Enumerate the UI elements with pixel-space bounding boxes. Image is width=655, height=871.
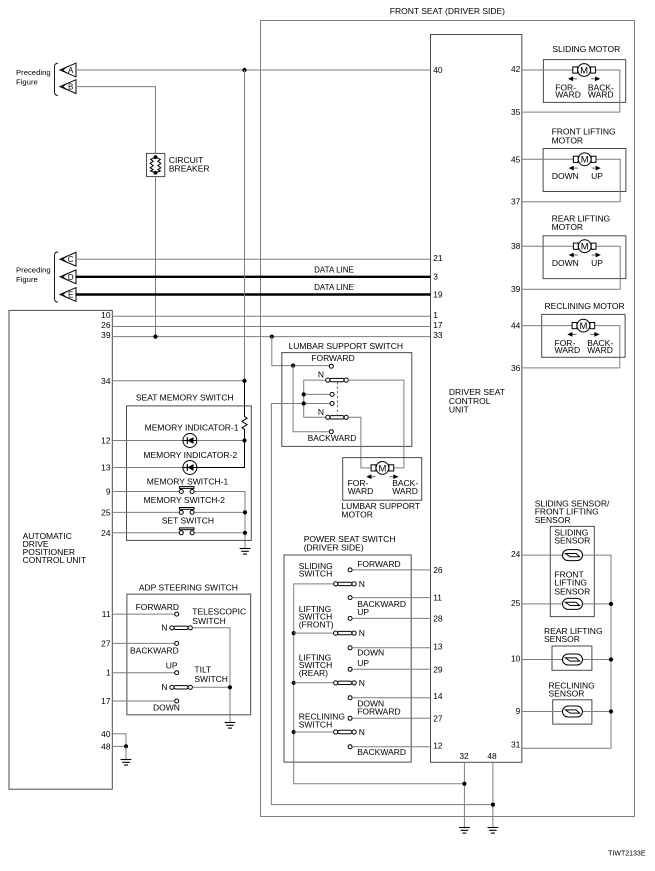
svg-text:SENSOR: SENSOR <box>535 515 571 525</box>
svg-text:SWITCH: SWITCH <box>299 719 333 729</box>
label FOR-WARD (reclining motor) <box>555 338 581 355</box>
wire pin 44 to reclining motor <box>522 325 572 327</box>
svg-text:FORWARD: FORWARD <box>357 707 400 717</box>
label REAR LIFTING SENSOR <box>544 626 603 644</box>
svg-text:C: C <box>68 255 74 264</box>
svg-text:RECLINING MOTOR: RECLINING MOTOR <box>545 301 625 311</box>
data line E (thick) <box>76 293 431 295</box>
label TILT SWITCH <box>194 665 228 684</box>
svg-text:UP: UP <box>166 661 178 671</box>
svg-text:DOWN: DOWN <box>153 703 180 713</box>
label AUTOMATIC DRIVE POSITIONER CONTROL UNIT <box>23 531 86 565</box>
svg-text:12: 12 <box>433 741 443 751</box>
svg-text:(FRONT): (FRONT) <box>299 619 334 629</box>
wire bus to N4 <box>294 731 334 733</box>
wire lumbar center tap drop to pin 48 line <box>271 404 493 805</box>
contact down rear <box>348 696 352 700</box>
svg-text:31: 31 <box>511 740 521 750</box>
wire contact to pin 29 <box>352 668 430 670</box>
svg-text:WARD: WARD <box>392 486 418 496</box>
wire sliding sensor to right bus / pin 31 <box>522 555 611 748</box>
motor reclining <box>572 319 595 332</box>
contact backward (lumbar) <box>329 430 333 434</box>
svg-text:M: M <box>581 242 589 253</box>
svg-text:39: 39 <box>511 284 521 294</box>
svg-text:SENSOR: SENSOR <box>544 634 580 644</box>
svg-text:BREAKER: BREAKER <box>169 164 210 174</box>
contact forward steering <box>175 612 179 616</box>
wire rear lifting motor return to pin 39 <box>522 246 620 289</box>
label REAR LIFTING MOTOR <box>552 214 611 233</box>
svg-text:UP: UP <box>591 258 603 268</box>
motor rear lifting <box>573 240 596 253</box>
wire pin 24 to sliding sensor <box>522 554 563 556</box>
lumbar support switch box <box>282 353 412 447</box>
arrows (rear lifting motor) <box>569 253 601 258</box>
svg-text:17: 17 <box>101 696 111 706</box>
svg-text:N: N <box>161 622 167 632</box>
svg-text:44: 44 <box>511 321 521 331</box>
wire ADP 26 to DSCU 17 <box>112 326 430 328</box>
wire ADP 39 to DSCU 33 <box>112 336 430 338</box>
wire pin 1 steering <box>112 672 174 674</box>
svg-text:Preceding: Preceding <box>16 266 51 275</box>
node CB junction <box>153 335 157 339</box>
wire pin 17 steering <box>112 700 174 702</box>
svg-text:25: 25 <box>511 598 521 608</box>
svg-text:45: 45 <box>511 154 521 164</box>
node bracket upper <box>302 392 306 396</box>
svg-text:29: 29 <box>433 664 443 674</box>
contact backward reclining <box>348 745 352 749</box>
svg-text:LUMBAR SUPPORT SWITCH: LUMBAR SUPPORT SWITCH <box>289 341 403 351</box>
wire lumbar bracket <box>304 380 326 417</box>
svg-text:M: M <box>579 321 587 332</box>
svg-text:FORWARD: FORWARD <box>311 353 354 363</box>
svg-text:Figure: Figure <box>16 78 38 87</box>
wire pin 25 <box>112 511 179 513</box>
svg-text:DOWN: DOWN <box>357 647 384 657</box>
wire pin 9 <box>112 491 179 493</box>
contact mid lower (lumbar) <box>330 402 334 406</box>
automatic drive positioner control unit box <box>9 310 112 789</box>
svg-text:48: 48 <box>487 751 497 761</box>
wire front lifting sensor to bus <box>583 603 612 605</box>
wire top slide to motor right <box>348 380 404 468</box>
wire A drop to pin 34 <box>244 70 246 381</box>
wire pin 42 to sliding motor <box>522 69 573 71</box>
switch set switch <box>179 528 194 535</box>
svg-text:36: 36 <box>511 363 521 373</box>
svg-text:ADP STEERING SWITCH: ADP STEERING SWITCH <box>139 582 238 592</box>
svg-text:28: 28 <box>433 613 443 623</box>
svg-text:(DRIVER SIDE): (DRIVER SIDE) <box>304 543 364 553</box>
svg-text:MOTOR: MOTOR <box>341 509 372 519</box>
svg-text:N: N <box>359 579 365 589</box>
label BACK-WARD (lumbar motor) <box>392 478 418 496</box>
svg-text:42: 42 <box>511 64 521 74</box>
label RECLINING SENSOR <box>549 681 595 699</box>
svg-text:39: 39 <box>101 330 111 340</box>
ground (ADP 40/48) <box>121 760 132 766</box>
svg-text:MOTOR: MOTOR <box>552 135 583 145</box>
motor front lifting <box>573 153 596 166</box>
switch memory switch-2 <box>179 508 194 515</box>
svg-text:MEMORY INDICATOR-2: MEMORY INDICATOR-2 <box>143 450 237 460</box>
slide switch N lifting rear <box>334 681 357 685</box>
slide switch N sliding <box>334 582 357 586</box>
svg-text:35: 35 <box>511 107 521 117</box>
svg-text:FORWARD: FORWARD <box>136 602 179 612</box>
svg-text:FRONT SEAT (DRIVER SIDE): FRONT SEAT (DRIVER SIDE) <box>390 6 505 16</box>
wire contact to pin 28 <box>352 617 430 619</box>
switch memory switch-1 <box>179 487 194 494</box>
connector B <box>60 80 76 94</box>
svg-text:DATA LINE: DATA LINE <box>314 266 354 275</box>
svg-text:3: 3 <box>433 271 438 281</box>
ground (pin 32) <box>459 828 470 834</box>
node lumbar forward node <box>291 364 295 368</box>
label LIFTING SWITCH (FRONT) <box>299 604 334 629</box>
svg-text:48: 48 <box>101 741 111 751</box>
svg-text:9: 9 <box>106 487 111 497</box>
svg-text:WARD: WARD <box>587 345 613 355</box>
svg-text:DOWN: DOWN <box>552 171 579 181</box>
node bracket lower <box>302 401 306 405</box>
ground (seat memory switch) <box>240 549 251 555</box>
arrows (reclining motor) <box>567 332 599 337</box>
dashed link (lumbar switch) <box>337 382 339 415</box>
svg-text:N: N <box>318 407 324 417</box>
wire pin 24 <box>112 532 179 534</box>
label FRONT LIFTING MOTOR <box>552 127 616 146</box>
wire power seat common bus <box>294 584 465 784</box>
contact backward sliding <box>348 596 352 600</box>
label Preceding Figure (top) <box>16 68 51 87</box>
svg-text:9: 9 <box>516 706 521 716</box>
svg-text:TELESCOPIC: TELESCOPIC <box>192 606 246 616</box>
ADP steering switch box <box>127 594 251 715</box>
svg-text:N: N <box>161 682 167 692</box>
wire pin 9 to reclining sensor <box>522 711 563 713</box>
svg-text:M: M <box>580 65 588 76</box>
svg-text:SENSOR: SENSOR <box>554 535 590 545</box>
brace (middle preceding figure) <box>55 252 59 302</box>
svg-text:38: 38 <box>511 241 521 251</box>
label FOR-WARD (sliding motor) <box>555 83 581 100</box>
svg-text:BACKWARD: BACKWARD <box>308 433 357 443</box>
wire pin 38 to rear lifting motor <box>522 245 574 247</box>
svg-text:SENSOR: SENSOR <box>554 586 590 596</box>
node switch-2 junction <box>243 510 247 514</box>
node lumbar feed junction <box>270 335 274 339</box>
svg-text:UP: UP <box>357 607 369 617</box>
svg-text:MOTOR: MOTOR <box>552 222 583 232</box>
wire circuit breaker down to pin39 line <box>155 177 157 337</box>
svg-text:Figure: Figure <box>16 275 38 284</box>
svg-text:SWITCH: SWITCH <box>194 674 228 684</box>
connector E <box>60 288 76 302</box>
svg-text:MEMORY INDICATOR-1: MEMORY INDICATOR-1 <box>145 422 239 432</box>
wire pin 10 to rear lifting sensor <box>522 659 563 661</box>
wire contact to pin 26 <box>352 569 430 571</box>
wire pin 48 to ground <box>492 762 494 827</box>
svg-text:11: 11 <box>102 609 111 619</box>
slide switch N bottom (lumbar) <box>326 415 349 419</box>
resistor (memory indicator) <box>197 381 247 468</box>
svg-text:MEMORY SWITCH-1: MEMORY SWITCH-1 <box>147 476 229 486</box>
sliding motor box <box>543 60 625 103</box>
lumbar support motor box <box>343 458 422 501</box>
wire reclining sensor to bus <box>583 711 612 713</box>
LED memory indicator-1 <box>183 434 197 448</box>
wire contact to pin 13 <box>352 647 430 649</box>
node set switch junction <box>243 531 247 535</box>
svg-text:1: 1 <box>433 310 438 320</box>
node bus reclining <box>292 730 296 734</box>
node junction A drop <box>242 68 246 72</box>
power seat switch box <box>284 555 411 762</box>
svg-text:10: 10 <box>511 654 521 664</box>
sensor sliding <box>563 550 583 561</box>
svg-text:FORWARD: FORWARD <box>357 559 400 569</box>
arrows (front lifting motor) <box>569 166 601 171</box>
contact down front <box>348 646 352 650</box>
contact up front <box>348 616 352 620</box>
svg-text:11: 11 <box>433 593 442 603</box>
wire A to pin 40 <box>76 69 431 71</box>
svg-text:B: B <box>68 83 73 92</box>
wire contact to pin 27 <box>352 717 430 719</box>
svg-text:N: N <box>359 727 365 737</box>
wire rear lifting sensor to bus <box>583 659 612 661</box>
svg-text:40: 40 <box>101 729 111 739</box>
svg-text:BACKWARD: BACKWARD <box>357 747 406 757</box>
svg-text:SWITCH: SWITCH <box>299 569 333 579</box>
wire sliding motor return to pin 35 <box>522 70 620 112</box>
svg-text:24: 24 <box>511 549 521 559</box>
LED memory indicator-2 <box>183 461 197 475</box>
node LED1 junction <box>242 438 246 442</box>
svg-text:27: 27 <box>433 713 443 723</box>
node pin34 junction <box>242 379 246 383</box>
svg-text:33: 33 <box>433 330 443 340</box>
sensor reclining <box>563 706 583 717</box>
wire lumbar center tap <box>271 403 330 405</box>
svg-text:26: 26 <box>101 320 111 330</box>
contact forward (lumbar) <box>329 364 333 368</box>
reclining sensor box <box>553 700 592 724</box>
label SLIDING SWITCH <box>299 561 333 579</box>
wire pin 11 steering <box>112 613 174 615</box>
svg-text:40: 40 <box>433 65 443 75</box>
contact up rear <box>348 667 352 671</box>
rear lifting motor box <box>543 236 626 279</box>
svg-text:WARD: WARD <box>588 90 614 100</box>
contact forward sliding <box>348 568 352 572</box>
wire set switch to bus <box>195 532 246 534</box>
svg-text:13: 13 <box>101 463 111 473</box>
reclining motor box <box>542 314 625 357</box>
svg-text:UP: UP <box>591 171 603 181</box>
label FOR-WARD (lumbar motor) <box>348 478 374 496</box>
svg-text:32: 32 <box>459 751 469 761</box>
svg-text:19: 19 <box>433 290 443 300</box>
svg-text:26: 26 <box>433 565 443 575</box>
svg-text:34: 34 <box>101 376 111 386</box>
wire bus to N3 <box>294 682 334 684</box>
svg-text:SEAT MEMORY SWITCH: SEAT MEMORY SWITCH <box>136 392 234 402</box>
svg-text:24: 24 <box>101 528 111 538</box>
svg-text:WARD: WARD <box>555 345 581 355</box>
node pin 48 junction <box>491 803 495 807</box>
contact mid upper (lumbar) <box>330 392 334 396</box>
brace (top preceding figure) <box>55 63 59 95</box>
sliding/front lifting sensor box <box>550 526 594 616</box>
wire LED1 to bus <box>197 440 245 442</box>
svg-text:17: 17 <box>433 320 443 330</box>
wire ADP pin 40 <box>112 734 126 747</box>
svg-text:14: 14 <box>433 691 443 701</box>
wire lumbar left bus to backward <box>293 366 329 432</box>
svg-text:TIWT2133E: TIWT2133E <box>608 850 646 857</box>
wire bus to N2 <box>294 632 334 634</box>
slide switch tilt <box>170 685 193 689</box>
svg-text:Preceding: Preceding <box>16 68 51 77</box>
arrows (sliding motor) <box>568 76 600 81</box>
wire pin 25 to front lifting sensor <box>522 603 563 605</box>
node bus rear lifting sensor <box>609 657 613 661</box>
data line D (thick) <box>76 276 431 278</box>
wire bottom slide to motor left <box>348 417 371 468</box>
wire telescopic to ground bus <box>193 628 231 723</box>
label LUMBAR SUPPORT MOTOR <box>341 501 420 520</box>
svg-text:A: A <box>68 66 74 75</box>
wire pin 12 <box>112 440 183 442</box>
svg-text:13: 13 <box>433 641 443 651</box>
slide switch telescopic <box>170 626 193 630</box>
ground (pin 48) <box>488 828 499 834</box>
label SLIDING SENSOR / FRONT LIFTING SENSOR <box>535 499 610 526</box>
connector A <box>60 63 76 77</box>
svg-text:SLIDING MOTOR: SLIDING MOTOR <box>552 44 620 54</box>
label LIFTING SWITCH (REAR) <box>299 653 333 678</box>
sensor front lifting <box>563 598 583 609</box>
rear lifting sensor box <box>552 646 592 670</box>
svg-text:CONTROL UNIT: CONTROL UNIT <box>23 555 86 565</box>
contact up steering <box>175 671 179 675</box>
wire to ground (ADP 40/48) <box>125 746 127 759</box>
wire tilt to ground bus <box>193 686 231 688</box>
contact forward reclining <box>348 716 352 720</box>
contact down steering <box>175 699 179 703</box>
wire contact to pin 11 <box>352 597 430 599</box>
wire ADP 34 <box>112 380 244 382</box>
node bus reclining sensor <box>609 709 613 713</box>
ground (ADP steering switch) <box>225 723 236 729</box>
svg-text:10: 10 <box>101 310 111 320</box>
node bus front lifting sensor <box>609 602 613 606</box>
wire switch-2 to bus <box>195 511 246 513</box>
circuit breaker <box>147 153 165 176</box>
svg-text:UP: UP <box>357 658 369 668</box>
connector C <box>60 252 76 266</box>
label SLIDING SENSOR <box>554 527 590 545</box>
label TELESCOPIC SWITCH <box>192 606 246 626</box>
label DRIVER SEAT CONTROL UNIT <box>449 387 505 414</box>
contact backward steering <box>175 641 179 645</box>
node tilt junction <box>228 685 232 689</box>
wire C to pin 21 <box>76 258 431 260</box>
wire ADP 10 to DSCU 1 <box>112 315 430 317</box>
wire contact to pin 14 <box>352 697 430 699</box>
label Preceding Figure (middle) <box>16 266 51 284</box>
svg-text:M: M <box>378 463 386 474</box>
wire pin 27 steering <box>112 642 174 644</box>
wire B to circuit breaker <box>76 87 156 154</box>
label CIRCUIT BREAKER <box>169 155 210 174</box>
svg-text:N: N <box>359 678 365 688</box>
svg-text:MEMORY SWITCH-2: MEMORY SWITCH-2 <box>144 495 226 505</box>
svg-text:25: 25 <box>101 507 111 517</box>
svg-text:1: 1 <box>106 668 111 678</box>
seat memory switch box <box>127 406 252 541</box>
motor lumbar support <box>371 462 394 475</box>
slide switch N top (lumbar) <box>326 378 349 382</box>
svg-text:WARD: WARD <box>555 90 581 100</box>
front seat (driver side) enclosure box <box>261 21 635 817</box>
arrows (lumbar motor) <box>366 474 398 479</box>
svg-text:BACKWARD: BACKWARD <box>130 645 179 655</box>
slide switch N lifting front <box>334 631 357 635</box>
wire pin 13 <box>112 467 183 469</box>
label BACK-WARD (reclining motor) <box>587 338 613 355</box>
svg-text:27: 27 <box>101 638 111 648</box>
svg-text:N: N <box>318 370 324 380</box>
wire ADP pin 48 <box>112 745 126 747</box>
wire pin 45 to front lifting motor <box>522 158 574 160</box>
motor sliding <box>573 64 596 77</box>
svg-text:37: 37 <box>511 197 521 207</box>
wire contact to pin 12 <box>352 746 430 748</box>
node ADP 40/48 junction <box>124 744 128 748</box>
svg-text:UNIT: UNIT <box>449 404 469 414</box>
node pin 32 junction <box>462 782 466 786</box>
driver seat control unit box <box>431 35 522 763</box>
svg-text:N: N <box>359 628 365 638</box>
node bus lifting rear <box>292 681 296 685</box>
wire lumbar mid contact upper <box>304 393 330 395</box>
svg-text:(REAR): (REAR) <box>299 668 328 678</box>
front lifting motor box <box>543 149 626 192</box>
label FRONT LIFTING SENSOR (inner) <box>554 570 590 597</box>
label RECLINING SWITCH <box>299 711 345 729</box>
wire pin 32 to ground <box>463 762 465 827</box>
svg-text:D: D <box>68 273 74 282</box>
label POWER SEAT SWITCH (DRIVER SIDE) <box>304 534 396 553</box>
svg-text:DOWN: DOWN <box>552 258 579 268</box>
svg-text:12: 12 <box>101 436 111 446</box>
svg-text:M: M <box>581 155 589 166</box>
connector D <box>60 270 76 284</box>
svg-text:SENSOR: SENSOR <box>549 689 585 699</box>
wire reclining motor return to pin 36 <box>522 326 620 368</box>
node bus lifting front <box>292 631 296 635</box>
wire front lifting motor return to pin 37 <box>522 159 620 201</box>
svg-text:21: 21 <box>433 253 443 263</box>
wire lumbar feed drop <box>272 337 330 366</box>
svg-text:WARD: WARD <box>348 486 374 496</box>
